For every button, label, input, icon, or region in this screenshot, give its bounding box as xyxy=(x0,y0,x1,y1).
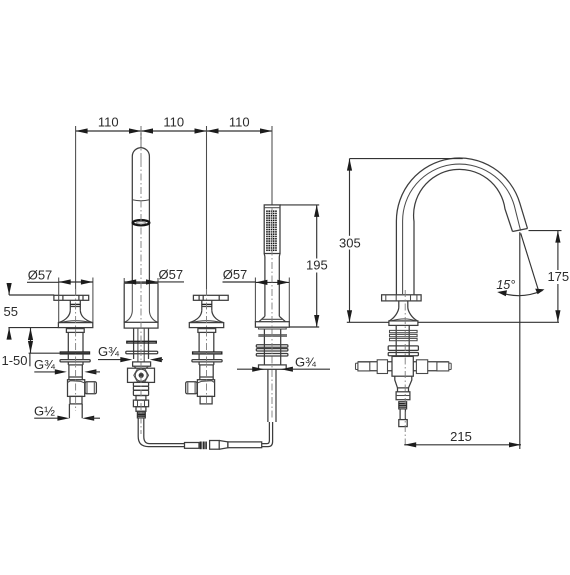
H1 dia 57 dimension xyxy=(58,278,60,323)
305 dimension xyxy=(350,158,463,160)
spout G3/4 connection collar and valve body xyxy=(133,362,151,366)
shower shank below deck xyxy=(263,329,265,365)
spout dia 57 dimension xyxy=(123,278,125,283)
hand shower handle xyxy=(263,254,266,257)
svg-text:215: 215 xyxy=(450,429,472,444)
right valve handle H2 mirrored xyxy=(186,295,229,404)
H1 bottom pipe xyxy=(68,404,70,418)
svg-text:55: 55 xyxy=(4,304,18,319)
55 dimension xyxy=(9,294,54,296)
flexible hose xyxy=(138,437,184,447)
svg-text:G½: G½ xyxy=(34,404,55,419)
175 dimension xyxy=(529,230,562,232)
svg-text:15°: 15° xyxy=(496,278,515,292)
side view threaded shank xyxy=(395,325,397,356)
spout riser tube with dome top xyxy=(132,148,149,284)
spout hose adapter (dark ribs) xyxy=(137,411,145,418)
hand shower head xyxy=(264,205,280,254)
H2 centerline xyxy=(206,289,208,404)
H1 centerline xyxy=(75,289,77,411)
shower holder nut xyxy=(259,365,287,369)
spout outlet ellipse (aerator) xyxy=(133,220,150,225)
svg-text:110: 110 xyxy=(98,115,119,130)
svg-text:G¾: G¾ xyxy=(34,357,55,372)
215 dimension xyxy=(404,444,521,446)
side view hose adapter dark ribs xyxy=(399,402,407,409)
side view tee with side connections xyxy=(358,361,392,363)
deck line xyxy=(347,321,389,323)
svg-text:G¾: G¾ xyxy=(295,355,316,370)
spout shank below deck xyxy=(133,328,135,359)
195 dimension xyxy=(280,204,319,206)
svg-text:305: 305 xyxy=(339,235,361,250)
spout escutcheon xyxy=(124,282,158,284)
vertical flow reference line xyxy=(519,232,521,449)
spout outlet face xyxy=(513,229,528,232)
spout centerline xyxy=(140,126,142,160)
svg-text:110: 110 xyxy=(229,115,250,130)
1-50 deck thickness dimension xyxy=(29,352,89,354)
svg-text:Ø57: Ø57 xyxy=(223,267,248,282)
svg-text:195: 195 xyxy=(306,258,328,273)
svg-text:1-50: 1-50 xyxy=(1,353,27,368)
side view neck + bell xyxy=(398,301,400,308)
inline hose fitting xyxy=(185,443,200,449)
svg-text:110: 110 xyxy=(163,115,184,130)
shower drop pipe xyxy=(267,369,269,422)
15 degree slope line xyxy=(521,233,539,291)
shower bell + flange xyxy=(259,316,265,321)
svg-text:Ø57: Ø57 xyxy=(159,267,184,282)
svg-text:G¾: G¾ xyxy=(98,344,119,359)
dimension chain 110 110 110 xyxy=(76,115,272,296)
svg-text:175: 175 xyxy=(547,269,569,284)
side view centerline xyxy=(404,290,406,448)
side view lower valve body xyxy=(395,376,412,388)
15 degree arc with arrows xyxy=(500,291,543,296)
shower centerline xyxy=(271,208,273,420)
side view: gooseneck spout xyxy=(396,158,527,295)
shower dia 57 dimension xyxy=(254,278,256,322)
side view cross handle bar xyxy=(382,295,422,301)
svg-text:Ø57: Ø57 xyxy=(28,268,53,283)
